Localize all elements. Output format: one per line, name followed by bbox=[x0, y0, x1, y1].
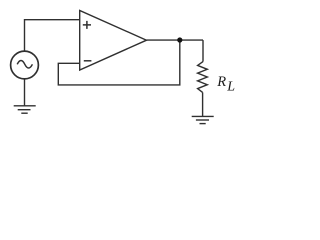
svg-text:L: L bbox=[226, 80, 235, 95]
svg-text:R: R bbox=[216, 74, 226, 90]
